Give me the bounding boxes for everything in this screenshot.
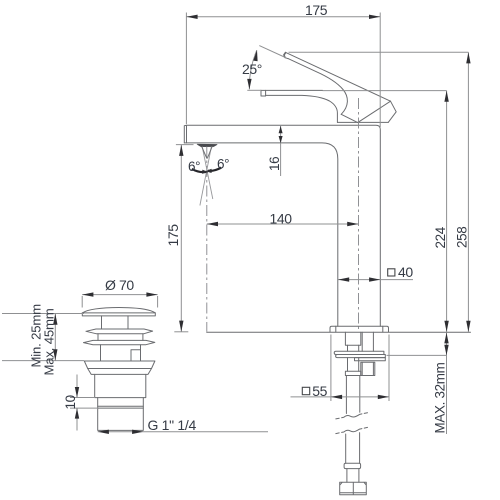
ext lines for sq55: [331, 335, 389, 402]
spray line crossing left-to-right: [202, 147, 213, 200]
label sq55 square: [302, 387, 309, 394]
label sq40 square: [388, 269, 395, 276]
faucet handle right tip wedge: [388, 101, 396, 122]
drain neck 2: [101, 345, 141, 361]
dim 175 left vertical line: [180, 145, 182, 332]
spout tube bottom line with curve into head: [266, 95, 338, 122]
arrow G right: [132, 430, 143, 434]
dim MAX32 vertical line: [446, 332, 448, 434]
arrow sq40 left: [338, 277, 349, 281]
hose hex nut: [340, 482, 367, 495]
dim sq40 line with leader: [338, 279, 413, 281]
mounting nut: [361, 362, 375, 375]
drain stem: [102, 316, 129, 329]
arrow min-max bottom: [53, 349, 57, 360]
arrow 175 top right: [369, 15, 380, 19]
25 deg horizontal ref line: [247, 89, 261, 91]
hose end tube: [347, 469, 359, 483]
ref lines for min25-max45: [2, 314, 84, 361]
arrow 16 bottom: [279, 136, 283, 143]
counter / deck line: [207, 331, 471, 333]
dim min25-max45 vertical line: [54, 314, 56, 361]
dim sq55 line with leader: [291, 396, 390, 398]
spout bar left end face: [184, 125, 186, 143]
dim 175 top: line and extension lines: [186, 13, 380, 128]
svg-text:175: 175: [165, 224, 181, 247]
arrow 6deg left: [202, 170, 208, 174]
spout bar top with rounded right corner: [187, 125, 381, 326]
dim 16 vertical line: [280, 126, 282, 176]
base plate of faucet: [330, 326, 389, 332]
arrow dia70 left: [82, 292, 93, 296]
arrow sq40 right: [369, 277, 380, 281]
drain body upper: [95, 374, 146, 397]
arrow MAX32 bottom: [444, 345, 448, 356]
svg-text:Max. 45mm: Max. 45mm: [42, 308, 57, 375]
arrow 10 upper pointing down: [75, 387, 79, 398]
arrow 175 left top: [179, 145, 183, 156]
6 deg right arc: [208, 168, 221, 171]
arrow 10 lower pointing up: [75, 408, 79, 419]
mounting washer 1: [334, 351, 384, 354]
spout aerator tip block: [261, 90, 266, 96]
spout tube top line: [266, 89, 323, 91]
drain flange 1: [86, 329, 153, 334]
supply hose upper segment: [348, 358, 359, 372]
threaded shank below counter: [345, 332, 360, 345]
base plate end verticals: [336, 326, 383, 332]
svg-text:175: 175: [305, 2, 328, 18]
faucet vertical centre line: [358, 98, 360, 332]
arrow 258 bottom: [466, 321, 470, 332]
dim G1-1/4 line: [98, 431, 268, 433]
spout bar bottom edge with inner radius into column: [184, 143, 337, 326]
threaded stud: [362, 332, 373, 351]
faucet handle lever top edge: [285, 52, 390, 101]
svg-text:25°: 25°: [242, 61, 262, 77]
faucet handle left tip facet: [284, 52, 289, 58]
dim 224 vertical line: [446, 91, 448, 332]
arrow 6deg right: [206, 169, 212, 173]
arrow G left: [98, 430, 109, 434]
dim dia70 line: [82, 294, 157, 296]
svg-text:140: 140: [270, 210, 293, 226]
arrow 25deg top: [253, 50, 257, 61]
arrow 140 left: [207, 222, 218, 226]
svg-text:10: 10: [63, 395, 78, 409]
ref line from spout top for 224: [323, 90, 447, 92]
svg-text:6°: 6°: [217, 157, 229, 172]
ref line from handle tip for 258: [289, 51, 469, 53]
svg-text:G 1" 1/4: G 1" 1/4: [148, 417, 197, 433]
svg-text:55: 55: [312, 383, 327, 399]
arrow MAX32 top: [444, 333, 448, 344]
arrow 175 top left: [186, 15, 197, 19]
hose break squiggle upper: [336, 413, 368, 419]
arrow 140 right: [347, 222, 358, 226]
svg-text:258: 258: [455, 227, 470, 248]
arrow 175 left bottom: [179, 321, 183, 332]
6 deg left arc: [192, 169, 206, 172]
ref line for MAX32 bottom: [387, 354, 447, 356]
drain threaded body: [98, 398, 144, 431]
mounting washer 2: [336, 355, 386, 358]
hose tube lower segment: [346, 433, 360, 464]
spray line crossing right-to-left: [200, 147, 212, 206]
faucet head bottom line: [338, 121, 389, 123]
hose break squiggle lower: [336, 427, 368, 433]
arrow sq55 left: [331, 395, 342, 399]
outlet spray centre line: [206, 147, 208, 332]
spacer washer 3: [355, 358, 386, 361]
arrow 224 bottom: [444, 321, 448, 332]
spray converging dark segments below outlet: [202, 147, 212, 159]
ext lines for dia70: [82, 296, 157, 308]
25 deg reference line along handle: [259, 46, 286, 58]
hose tube down to break: [346, 376, 359, 414]
narrow tube below shank: [348, 345, 359, 351]
arrow 224 top: [444, 91, 448, 102]
svg-text:6°: 6°: [188, 159, 200, 174]
ext tick for 175 left bottom: [174, 331, 188, 333]
drain neck 1: [98, 334, 143, 341]
faucet handle lower edge with front curve: [288, 59, 347, 115]
arrow sq55 right: [378, 395, 389, 399]
drain dome cap: [82, 308, 155, 313]
25 deg dimension arc: [249, 50, 256, 89]
drain cap rim disc: [82, 313, 155, 316]
arrow dia70 right: [146, 292, 157, 296]
svg-text:MAX. 32mm: MAX. 32mm: [433, 362, 448, 433]
dim 140 horizontal line: [207, 223, 359, 225]
dim 10 vertical lines: [76, 375, 78, 431]
arrow 258 top: [466, 52, 470, 63]
ext line for 175 left top: [176, 144, 194, 146]
drain thread relief double line: [98, 406, 144, 408]
aerator outlet under bar (bold slot): [197, 144, 217, 146]
ext lines for dim 10: [70, 398, 98, 409]
drain overflow slot: [131, 350, 141, 361]
drain skirt band 2: [88, 369, 152, 375]
hose ferrule: [344, 463, 361, 468]
arrow 25deg bottom: [247, 79, 251, 90]
drain flange 2: [84, 340, 155, 344]
hose crimp collar: [345, 371, 360, 375]
dim 258 vertical line: [467, 52, 469, 332]
faucet head V lines to centre vertex: [341, 101, 390, 122]
arrow 16 top: [279, 126, 283, 133]
svg-text:224: 224: [433, 226, 448, 248]
svg-text:40: 40: [398, 264, 413, 280]
drain skirt band 1: [84, 361, 155, 369]
svg-text:Ø 70: Ø 70: [105, 277, 134, 293]
arrow min-max top: [53, 314, 57, 325]
svg-text:16: 16: [267, 157, 282, 171]
